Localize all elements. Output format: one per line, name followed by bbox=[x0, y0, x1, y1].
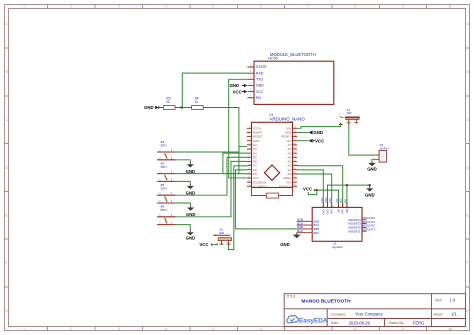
svg-text:7: 7 bbox=[307, 327, 309, 331]
wire S1 to P1 pin1 bbox=[349, 123, 375, 155]
wire R6 to arduino D9 bbox=[203, 108, 247, 174]
svg-text:BTN: BTN bbox=[161, 143, 167, 147]
wire arduino D8 to joystick B2B bbox=[235, 170, 296, 229]
svg-text:VCC: VCC bbox=[233, 89, 242, 94]
module HC05 MODULE_BLUETOOTH bbox=[247, 52, 333, 104]
wire R5 to R6 bbox=[175, 107, 192, 109]
svg-text:GND: GND bbox=[313, 130, 323, 135]
svg-text:1.0: 1.0 bbox=[450, 297, 456, 302]
net label MOUNT4 MOUNT3 MOUNT2 MOUNT1 bbox=[363, 216, 376, 231]
svg-text:3: 3 bbox=[118, 327, 120, 331]
title block bbox=[284, 294, 465, 327]
svg-text:BTN: BTN bbox=[161, 187, 167, 191]
net flag VCC on module VCC pin bbox=[233, 89, 248, 94]
wire B1 to gnd bbox=[176, 160, 191, 162]
svg-text:VCC: VCC bbox=[199, 242, 208, 247]
svg-text:VCC: VCC bbox=[303, 186, 312, 191]
svg-text:3: 3 bbox=[118, 5, 120, 9]
resistor R5 2k bbox=[159, 97, 175, 110]
resistor R7 below arduino bbox=[252, 188, 293, 199]
resistor R6 1k bbox=[192, 97, 204, 110]
ground B1 bbox=[186, 162, 196, 174]
svg-text:2020-06-29: 2020-06-29 bbox=[349, 320, 371, 325]
svg-text:E: E bbox=[6, 213, 8, 217]
ground B3 bbox=[186, 205, 196, 217]
ground joystick right bbox=[365, 185, 375, 198]
svg-text:GND: GND bbox=[280, 242, 290, 247]
svg-text:MANDO BLUETOOTH: MANDO BLUETOOTH bbox=[301, 299, 351, 305]
svg-text:EN: EN bbox=[256, 96, 261, 100]
svg-text:10: 10 bbox=[448, 5, 452, 9]
svg-text:GND: GND bbox=[365, 193, 375, 198]
wire module TXD to arduino D10 bbox=[229, 79, 248, 178]
button B4 BTN bbox=[157, 205, 176, 225]
wire arduino A0 to joystick pin3 bbox=[297, 174, 332, 207]
junction node gnd drop bbox=[369, 184, 371, 186]
svg-text:2: 2 bbox=[70, 5, 72, 9]
svg-text:BTN: BTN bbox=[161, 165, 167, 169]
svg-text:B: B bbox=[467, 70, 469, 74]
wire B1 to arduino D2 bbox=[176, 146, 247, 152]
svg-text:+5V: +5V bbox=[336, 198, 339, 203]
wire B4 to gnd bbox=[176, 225, 191, 231]
connector P1 SUPLY bbox=[375, 143, 390, 162]
svg-text:1k: 1k bbox=[195, 100, 199, 104]
junction node VCC joystick bbox=[316, 189, 318, 191]
svg-text:B2A: B2A bbox=[297, 229, 303, 233]
svg-text:GND: GND bbox=[327, 209, 330, 215]
svg-text:Date:: Date: bbox=[331, 321, 339, 325]
svg-text:7: 7 bbox=[307, 5, 309, 9]
svg-text:EasyEDA: EasyEDA bbox=[299, 317, 328, 324]
svg-text:SW: SW bbox=[219, 231, 224, 235]
wire B3 to arduino D5 bbox=[176, 157, 247, 195]
switch S2 SW bbox=[214, 228, 232, 245]
switch S1 SW bbox=[339, 108, 360, 125]
net label B1B B1A B2B B2A bbox=[297, 218, 303, 233]
svg-text:STATE: STATE bbox=[256, 65, 267, 69]
svg-text:6: 6 bbox=[260, 5, 262, 9]
svg-text:2k: 2k bbox=[166, 100, 170, 104]
svg-text:GND: GND bbox=[144, 105, 154, 110]
svg-text:VRX: VRX bbox=[329, 198, 332, 203]
ground P1 bbox=[367, 161, 377, 171]
EasyEDA logo bbox=[287, 316, 328, 325]
svg-text:REV:: REV: bbox=[435, 298, 443, 302]
svg-text:RXD: RXD bbox=[256, 71, 264, 75]
svg-text:F: F bbox=[6, 261, 8, 265]
svg-text:9: 9 bbox=[402, 5, 404, 9]
net flag GND on module GND pin bbox=[230, 83, 248, 88]
svg-text:VRY: VRY bbox=[340, 198, 343, 203]
svg-text:1/1: 1/1 bbox=[451, 312, 457, 317]
junction node pin6-gnd bbox=[346, 184, 348, 186]
ground B2 bbox=[186, 184, 196, 196]
svg-text:+VCC: +VCC bbox=[313, 138, 325, 143]
wire S2 to arduino D7 bbox=[229, 166, 248, 250]
svg-text:B: B bbox=[6, 70, 8, 74]
svg-text:8: 8 bbox=[354, 5, 356, 9]
wire arduino A1 to joystick pin1 bbox=[297, 170, 323, 208]
svg-text:10: 10 bbox=[448, 327, 452, 331]
button B2 BTN bbox=[157, 162, 176, 182]
net flag GND on arduino GND pin bbox=[297, 130, 323, 135]
left pins bbox=[297, 221, 313, 232]
net flag +VCC on arduino +5V pin bbox=[297, 138, 324, 143]
button B3 BTN bbox=[157, 183, 176, 203]
svg-text:VRX: VRX bbox=[331, 209, 334, 214]
svg-text:B2A: B2A bbox=[314, 231, 320, 235]
ground B4 bbox=[186, 230, 196, 240]
svg-text:Drawn By:: Drawn By: bbox=[389, 321, 405, 325]
svg-text:BTN: BTN bbox=[161, 208, 167, 212]
svg-text:1: 1 bbox=[23, 327, 25, 331]
wire module RXD to divider node bbox=[182, 73, 247, 107]
svg-text:GND: GND bbox=[321, 197, 324, 203]
inside pin names bbox=[314, 219, 320, 234]
net flag VCC on S2 bbox=[199, 242, 217, 247]
svg-text:GND: GND bbox=[186, 235, 196, 240]
wire B2 to gnd bbox=[176, 181, 191, 183]
svg-text:E: E bbox=[467, 213, 469, 217]
svg-text:GND: GND bbox=[230, 83, 240, 88]
svg-text:MOUNT1: MOUNT1 bbox=[363, 228, 376, 232]
svg-text:Company:: Company: bbox=[331, 312, 347, 316]
svg-text:FERG: FERG bbox=[413, 320, 425, 325]
net port GND (left of R5) bbox=[144, 105, 159, 110]
svg-text:+5V: +5V bbox=[338, 209, 341, 214]
svg-text:8: 8 bbox=[354, 327, 356, 331]
wire joystick pin6 stub bbox=[346, 185, 348, 207]
svg-text:2: 2 bbox=[70, 327, 72, 331]
connector J1 Joystick bbox=[297, 203, 367, 249]
svg-text:TXD: TXD bbox=[256, 78, 263, 82]
svg-text:VRY: VRY bbox=[342, 209, 345, 214]
wire VCC hook bbox=[308, 190, 317, 195]
svg-text:GND: GND bbox=[325, 197, 328, 203]
svg-text:D12/MISO: D12/MISO bbox=[253, 184, 267, 188]
ic U1 ARDUINO_NANO bbox=[247, 113, 305, 189]
svg-text:HC05: HC05 bbox=[268, 57, 277, 61]
wire VCC to joystick pin4 bbox=[317, 190, 339, 207]
svg-text:MOUNT1: MOUNT1 bbox=[348, 229, 361, 233]
ground joystick left bbox=[280, 233, 301, 247]
wire arduino A2 to joystick pin5 bbox=[297, 166, 343, 208]
svg-text:Joystick: Joystick bbox=[332, 245, 343, 249]
svg-text:TITLE:: TITLE: bbox=[286, 295, 296, 299]
svg-text:6: 6 bbox=[260, 327, 262, 331]
svg-text:D13/SCK: D13/SCK bbox=[279, 184, 291, 188]
net flag VCC joystick bbox=[303, 186, 316, 191]
wire joystick pin2 to gnd flag bbox=[328, 185, 370, 207]
svg-text:Your Company: Your Company bbox=[355, 311, 383, 316]
wire B2 to arduino D4 bbox=[176, 153, 247, 173]
wire B3 to gnd bbox=[176, 203, 191, 205]
svg-text:9: 9 bbox=[402, 327, 404, 331]
svg-text:5: 5 bbox=[212, 327, 214, 331]
svg-text:4: 4 bbox=[165, 5, 167, 9]
svg-text:GND: GND bbox=[367, 166, 377, 171]
button B1 BTN bbox=[157, 140, 176, 160]
svg-text:SW: SW bbox=[347, 111, 352, 115]
svg-text:SUPLY: SUPLY bbox=[380, 147, 390, 151]
wire arduino VIN to S1 bbox=[297, 125, 341, 129]
svg-text:1: 1 bbox=[23, 5, 25, 9]
wire P1 pin2 to gnd bbox=[372, 159, 375, 161]
svg-text:5: 5 bbox=[212, 5, 214, 9]
junction node RXD divider bbox=[180, 106, 182, 108]
svg-text:Sheet:: Sheet: bbox=[433, 313, 443, 317]
svg-text:GND: GND bbox=[322, 209, 325, 215]
svg-text:F: F bbox=[467, 261, 469, 265]
svg-text:4: 4 bbox=[165, 327, 167, 331]
top pins bbox=[323, 203, 347, 207]
right pins bbox=[362, 220, 367, 231]
net label GND joystick top pins bbox=[321, 197, 348, 203]
svg-text:VCC: VCC bbox=[256, 90, 264, 94]
svg-text:ARDUINO_NANO: ARDUINO_NANO bbox=[269, 116, 305, 121]
svg-text:GND: GND bbox=[256, 84, 264, 88]
wire B4 to arduino D6 bbox=[176, 161, 247, 216]
